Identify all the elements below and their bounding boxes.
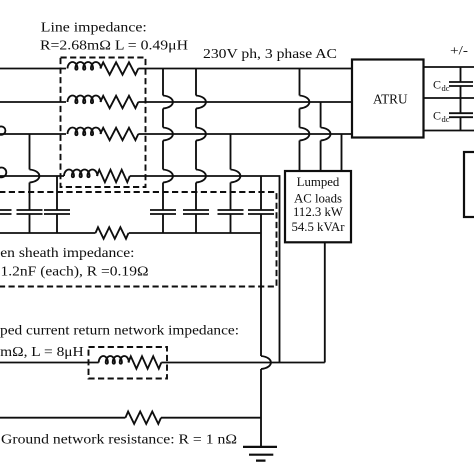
resistor R sheath bus: [96, 227, 129, 239]
wire hop drop B over phase B: [196, 96, 206, 109]
inductor L phase B: [68, 96, 101, 104]
capacitor Cdc upper: [449, 82, 473, 86]
wire DC link mid: [424, 97, 474, 99]
wire tap P3 from phase C to AC loads: [341, 134, 343, 171]
capacitor sheath D: [248, 210, 274, 214]
svg-text:Lumped current return network: Lumped current return network impedance:: [0, 324, 239, 339]
wire hop drop B over phase C: [196, 128, 206, 141]
ground symbol: [243, 447, 277, 461]
wire phase A left segment: [0, 68, 66, 70]
wire neutral left segment: [0, 175, 64, 177]
wire hop drop A over phase C: [163, 128, 173, 141]
svg-text:R=2.68mΩ L = 0.49μH: R=2.68mΩ L = 0.49μH: [40, 39, 188, 54]
wire DC link negative: [424, 130, 474, 132]
svg-text:1.2nF (each), R =0.19Ω: 1.2nF (each), R =0.19Ω: [1, 265, 149, 280]
wire hop drop C over neutral: [231, 170, 241, 183]
wire hop P1 over phase B: [300, 96, 310, 109]
svg-text:C: C: [433, 78, 441, 92]
wire sheath drop A from phase A: [162, 69, 164, 234]
capacitor sheath B: [183, 210, 209, 214]
wire ground network line left: [0, 417, 125, 419]
inductor L phase C: [68, 128, 101, 136]
wire hop drop A over neutral: [163, 170, 173, 183]
svg-text:R = 8mΩ, L = 8μH: R = 8mΩ, L = 8μH: [0, 345, 84, 360]
wire phase A to ATRU: [138, 68, 352, 70]
resistor R phase C: [100, 128, 138, 140]
capacitor sheath G cut at left edge: [0, 210, 12, 214]
wire sheath bottom bus left: [0, 232, 96, 234]
block Lumped AC loads box: [285, 171, 351, 242]
wire phase B left segment: [0, 101, 66, 103]
svg-text:Lumped: Lumped: [297, 175, 340, 189]
wire hop P1 over phase C: [300, 128, 310, 141]
svg-text:C: C: [433, 109, 441, 123]
wire sheath drop E from phase C: [29, 134, 31, 233]
block DC loads box cut at right edge: [464, 152, 474, 217]
svg-text:AC loads: AC loads: [294, 191, 342, 205]
wire tap P1 from phase A to AC loads: [299, 69, 301, 172]
inductor L neutral: [64, 170, 97, 178]
inductor L phase A: [68, 62, 101, 70]
wire DC bus vertical segments: [460, 67, 462, 131]
wire phase B to ATRU: [138, 101, 352, 103]
svg-text:+/-: +/-: [450, 43, 468, 58]
svg-text:Line impedance:: Line impedance:: [41, 21, 147, 36]
svg-text:ATRU: ATRU: [373, 91, 408, 106]
wire AC loads bottom pin down to return line: [324, 242, 326, 362]
resistor R return network: [128, 356, 161, 368]
dashed box current return network: [89, 347, 168, 379]
svg-text:Ground network resistance: R =: Ground network resistance: R = 1 nΩ: [1, 433, 237, 448]
capacitor sheath F: [44, 210, 70, 214]
wire phase C to ATRU: [138, 133, 352, 135]
capacitor sheath C: [218, 210, 244, 214]
wire hop drop B over neutral: [196, 170, 206, 183]
resistor R phase B: [100, 96, 138, 108]
wire hop P2 over phase C: [321, 128, 331, 141]
wire sheath drop F from neutral: [56, 176, 58, 233]
node terminal circle phase C: [0, 126, 5, 134]
wire tap P2 from phase B to AC loads: [320, 102, 322, 171]
capacitor sheath E: [17, 210, 43, 214]
wire current return line left: [0, 362, 99, 364]
wire sheath drop B from phase A: [195, 69, 197, 234]
wire hop drop D over return line: [261, 356, 271, 369]
wire sheath drop C from phase C: [230, 134, 232, 233]
wire sheath bottom bus right: [129, 232, 261, 234]
wire hop drop A over phase B: [163, 96, 173, 109]
wire neutral to corner and down: [130, 176, 280, 363]
svg-text:54.5 kVAr: 54.5 kVAr: [291, 220, 345, 234]
capacitor Cdc lower: [449, 113, 473, 117]
wire hop drop E over neutral: [30, 170, 40, 183]
wire phase C left segment: [0, 133, 66, 135]
inductor L return network: [99, 356, 129, 364]
wire sheath drop D from neutral down to ground net: [260, 176, 262, 447]
wire DC link positive: [424, 66, 474, 68]
node terminal circle neutral: [0, 168, 6, 178]
svg-text:230V ph, 3 phase AC: 230V ph, 3 phase AC: [203, 47, 337, 62]
block ATRU box: [352, 60, 424, 138]
svg-text:dc: dc: [442, 114, 450, 124]
svg-text:dc: dc: [442, 83, 450, 93]
resistor R ground network: [125, 412, 161, 424]
resistor R phase A: [100, 62, 138, 74]
dashed box line impedance: [61, 58, 146, 188]
svg-text:112.3 kW: 112.3 kW: [293, 205, 344, 219]
dashed box screen sheath network: [0, 192, 277, 287]
svg-text:Screen sheath impedance:: Screen sheath impedance:: [0, 246, 135, 261]
wire current return line right: [161, 362, 324, 364]
capacitor sheath A: [150, 210, 176, 214]
resistor R neutral: [97, 170, 130, 182]
wire ground network line right: [161, 417, 261, 419]
